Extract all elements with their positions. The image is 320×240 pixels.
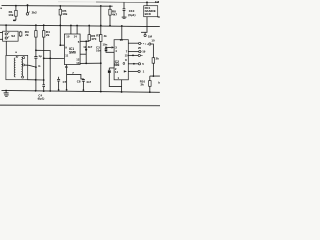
junction (50.2,58.4) <box>49 58 51 60</box>
junction (100.8,5.9) <box>100 5 102 7</box>
border bottom edge <box>0 104 160 106</box>
junction (35.6,79.8) <box>35 79 37 81</box>
wire IC2 bottom pin <box>121 80 123 92</box>
transformer taps <box>23 57 25 59</box>
wire R5 net down <box>60 25 64 45</box>
junction (27.5,5) <box>27 4 29 6</box>
junction (43.7,80) <box>43 79 45 81</box>
svg-text:S2: S2 <box>11 34 15 38</box>
junction (43.7,25.2) <box>43 24 45 26</box>
transformer primary winding <box>14 58 15 77</box>
transformer feed wire <box>5 41 7 55</box>
junction (133,55.4) <box>132 55 134 57</box>
junction (110,6.1) <box>109 5 111 7</box>
wire bus3 ground rail <box>2 90 160 92</box>
terminal circle top right <box>144 34 146 36</box>
wire secondary out <box>25 65 36 67</box>
resistor R8 leads <box>109 6 111 26</box>
junction (83.4,90.1) <box>83 89 85 91</box>
wire IC3 bottom to terminal <box>141 17 147 35</box>
wire IC2 out y43 <box>128 42 138 44</box>
junction (133.9,63.8) <box>133 63 135 65</box>
wire out right y76 <box>150 76 160 81</box>
IC2 pin circle <box>123 63 125 65</box>
wire C3 node <box>106 46 112 48</box>
junction (121.6,92) <box>121 91 123 93</box>
wire IC2 pin16 top <box>121 26 123 40</box>
svg-text:10: 10 <box>66 34 70 38</box>
resistor R1 <box>15 10 18 16</box>
svg-text:11: 11 <box>65 65 68 69</box>
switch S2 contacts <box>5 33 7 35</box>
junction (35.9,50.3) <box>35 49 37 51</box>
svg-text:10n: 10n <box>103 43 108 47</box>
svg-text:13: 13 <box>76 61 80 65</box>
wire IC1 pin14 top <box>76 26 78 35</box>
svg-text:4n7: 4n7 <box>86 80 91 84</box>
transformer secondary winding <box>21 57 22 76</box>
svg-text:SM6: SM6 <box>69 50 76 54</box>
svg-text:556: 556 <box>114 63 120 67</box>
svg-text:14: 14 <box>74 34 78 38</box>
blob R1 bottom <box>13 20 16 22</box>
junction (153.4,76.1) <box>153 75 155 77</box>
svg-text:a: a <box>0 6 2 10</box>
transformer box <box>6 55 28 79</box>
resistor R1 lead <box>15 6 17 21</box>
svg-text:2k: 2k <box>46 33 50 37</box>
svg-text:R7: R7 <box>96 33 100 37</box>
junction (60.3,45.2) <box>59 44 61 46</box>
svg-text:2k2: 2k2 <box>32 11 37 15</box>
junction (70.9,25.4) <box>70 25 72 27</box>
svg-text:15: 15 <box>125 54 129 58</box>
junction (86.2,63.4) <box>85 63 87 65</box>
op IC1 box <box>64 34 80 65</box>
svg-text:10: 10 <box>151 39 155 43</box>
junction (147,2.3) <box>146 1 148 3</box>
junction (100.8,91.6) <box>100 91 102 93</box>
junction (50.2,91) <box>49 90 51 92</box>
junction (35.6,90.8) <box>35 90 37 92</box>
junction (60.3,25.4) <box>59 25 61 27</box>
svg-text:C10: C10 <box>129 9 135 13</box>
svg-text:16: 16 <box>120 38 124 42</box>
resistor R5 <box>59 9 61 15</box>
capacitor C10 <box>123 9 126 11</box>
junction (86.2,41.3) <box>85 40 87 42</box>
resistor R10 <box>149 81 152 87</box>
capacitor C3 <box>105 48 108 50</box>
junction (58.6,90) <box>58 89 60 91</box>
junction (6.1,25.2) <box>5 24 7 26</box>
svg-text:b: b <box>158 81 160 85</box>
pin arrow IC2 pin3 <box>112 46 115 48</box>
junction (110,25.6) <box>109 25 111 27</box>
trimmer P1 lead <box>27 5 29 13</box>
ground G2 <box>122 16 127 18</box>
wire IC1 pin11 bottom <box>66 65 68 90</box>
wire switch to R9 <box>151 44 153 58</box>
wire IC3 top <box>146 2 148 5</box>
IC2 box <box>114 40 128 80</box>
resistor R7 leads <box>100 6 102 92</box>
circuit schematic 160x110 <box>0 0 160 110</box>
capacitor C5 on net B <box>42 85 45 91</box>
wire IC2 out y55 <box>128 54 138 56</box>
svg-text:2k: 2k <box>141 82 145 86</box>
svg-text:10n: 10n <box>96 48 101 52</box>
resistor R6 leads <box>88 26 90 42</box>
svg-text:10k: 10k <box>62 12 67 16</box>
capacitor C7 <box>57 77 60 90</box>
svg-text:4k7: 4k7 <box>88 45 93 49</box>
capacitor C8 <box>82 80 85 82</box>
svg-text:C7: C7 <box>63 80 67 84</box>
svg-text:10k: 10k <box>8 13 13 17</box>
switch S1 contacts <box>139 42 141 44</box>
resistor R4 leads <box>43 25 45 85</box>
wire x50 down to bus3 <box>49 58 51 91</box>
labels <box>0 0 161 100</box>
trimmer P1 <box>26 13 28 15</box>
svg-text:2k: 2k <box>156 57 160 61</box>
wire top faint line <box>58 1 96 3</box>
junction (6.1,90.5) <box>5 90 7 92</box>
resistor R4 <box>43 31 45 37</box>
junction (89.2,25.5) <box>88 25 90 27</box>
IC3 box top right <box>144 6 158 17</box>
wire S2 drop <box>5 25 7 31</box>
switch S2 box <box>3 31 19 41</box>
svg-text:-19: -19 <box>141 50 145 54</box>
resistor R8 <box>109 9 111 15</box>
resistor R3 <box>35 31 37 37</box>
pin arrow IC2 out <box>124 70 127 72</box>
terminal circle y63 <box>138 63 140 65</box>
junction (77.1,25.5) <box>76 25 78 27</box>
capacitor C4 <box>108 69 111 71</box>
junction (100.8,63.2) <box>100 62 102 64</box>
wire IC2 out y51 <box>128 51 138 53</box>
wire IC2 out y71 <box>128 70 138 72</box>
crystal X1 <box>19 32 22 36</box>
wire R10 to bus3 <box>149 86 151 92</box>
junction (35.9,67.1) <box>35 66 37 68</box>
junction (121.8,25.9) <box>121 25 123 27</box>
svg-text:BCD: BCD <box>145 12 151 16</box>
wire node A to corner <box>36 50 50 58</box>
junction (43.7,58.3) <box>43 57 45 59</box>
capacitor C4 wire <box>109 68 114 70</box>
wire bus1 +V top rail <box>2 5 113 8</box>
junction (60.3,5.9) <box>59 5 61 7</box>
wire IC2 out y63 <box>128 63 138 65</box>
wire to C8 <box>67 74 84 79</box>
svg-text:12: 12 <box>83 45 87 49</box>
wire into IC1 pin9 <box>44 57 65 59</box>
resistor R6 <box>88 35 90 41</box>
junction (149.8,92.1) <box>149 91 151 93</box>
junction (66.6,89.9) <box>66 89 68 91</box>
svg-text:1M: 1M <box>155 0 160 4</box>
svg-text:C8: C8 <box>77 79 81 83</box>
wire IC1 pin12 right <box>80 53 86 55</box>
wire transformer bottom right <box>28 79 44 81</box>
junction (106,47.4) <box>105 47 107 49</box>
terminal circle y51 <box>139 51 141 53</box>
terminal circle y55 <box>138 54 140 56</box>
ground G1 <box>5 91 7 93</box>
resistor R3 leads <box>35 25 37 50</box>
svg-text:1µ: 1µ <box>38 54 42 58</box>
junction (43.7,91.1) <box>43 90 45 92</box>
terminal circle y71 <box>138 70 140 72</box>
resistor R7 <box>100 35 102 42</box>
svg-text:470: 470 <box>91 37 96 41</box>
junction dots <box>5 1 154 93</box>
resistor R5 leads <box>59 6 61 26</box>
wire bus2 second rail <box>0 25 160 27</box>
svg-text:14: 14 <box>115 70 119 74</box>
svg-text:(0µ1): (0µ1) <box>38 96 45 100</box>
capacitor C10 leads <box>123 2 125 17</box>
wire IC1 pin5 right <box>80 41 89 63</box>
wire top right line <box>96 1 159 4</box>
capacitor C2 on net A <box>34 57 37 59</box>
left edge stubs <box>0 32 3 39</box>
svg-text:D+: D+ <box>158 15 160 19</box>
svg-text:(0µ1): (0µ1) <box>128 13 135 17</box>
resistor R9 <box>152 58 155 64</box>
junction (86.1,49.6) <box>85 49 87 51</box>
wire R9 to node <box>152 63 154 76</box>
junction (35.9,25.2) <box>35 24 37 26</box>
wire IC1 pin13 right <box>80 62 101 64</box>
svg-text:4k: 4k <box>104 34 108 38</box>
wire IC1 pin10 top <box>70 25 72 34</box>
junction (100.8,25.5) <box>100 25 102 27</box>
svg-text:2k: 2k <box>25 33 29 37</box>
junction (15.9,5.7) <box>15 5 17 7</box>
svg-text:4k7: 4k7 <box>112 13 117 17</box>
